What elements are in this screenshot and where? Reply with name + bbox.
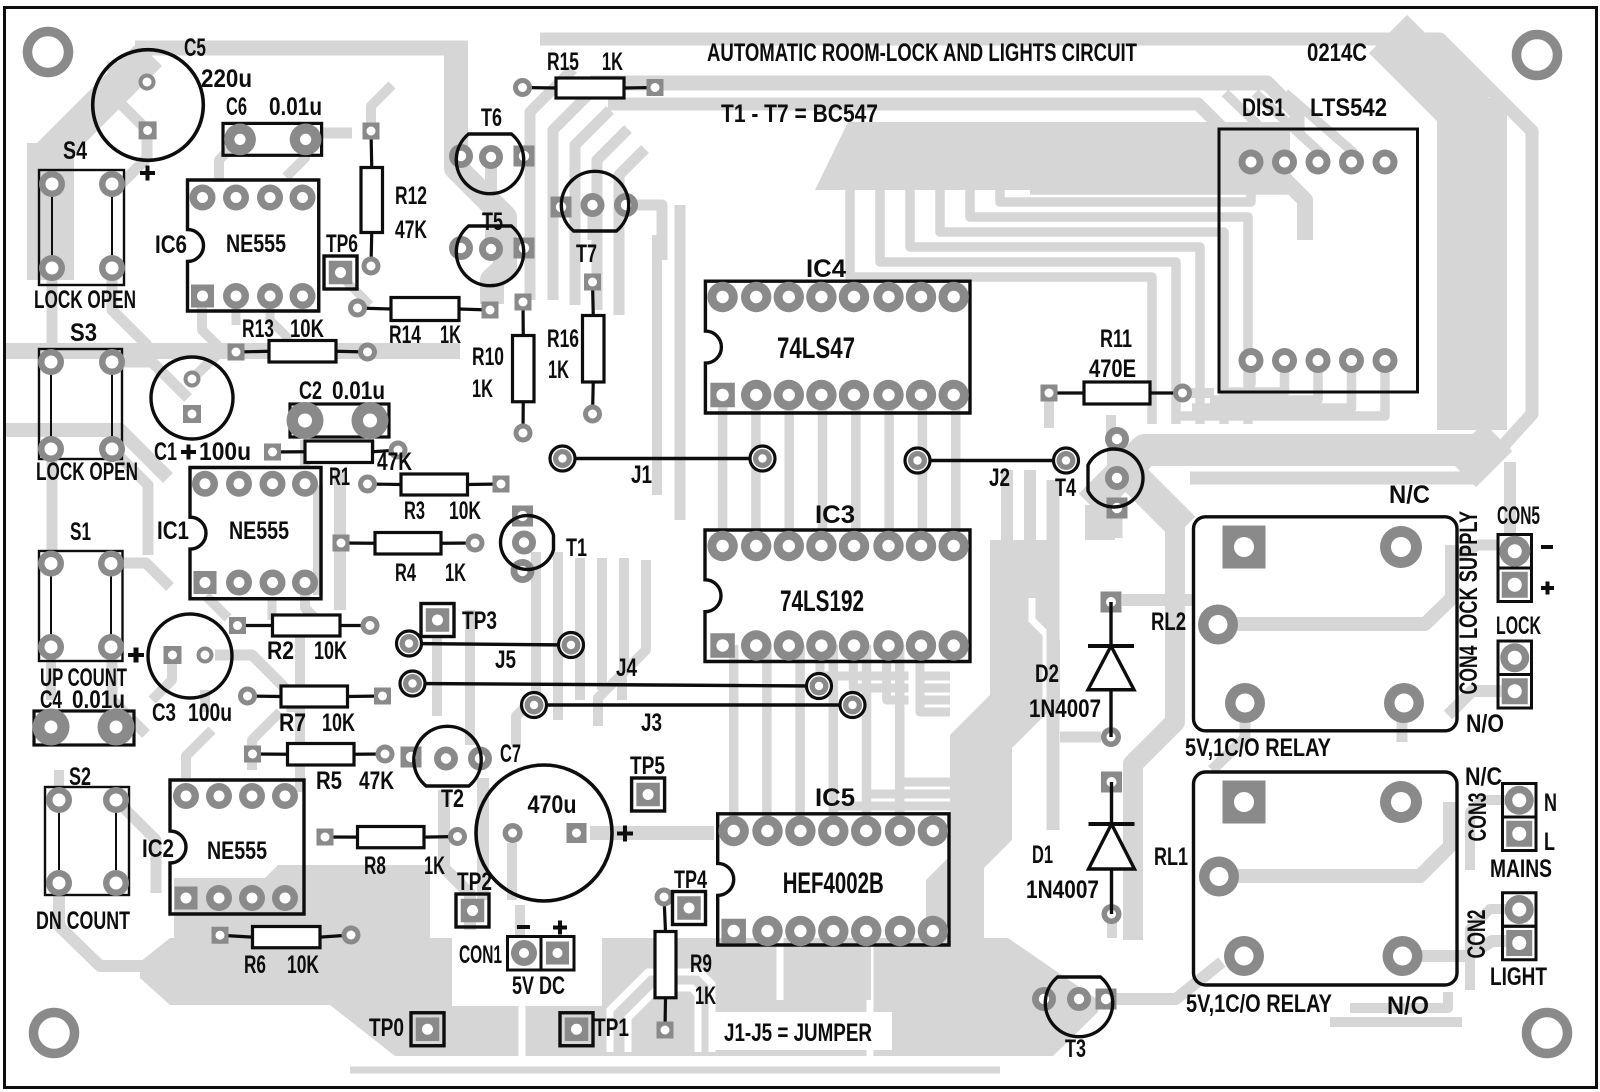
wire	[1448, 691, 1514, 715]
wire	[597, 558, 607, 690]
wire	[1112, 508, 1123, 538]
svg-text:S1: S1	[70, 518, 91, 546]
wire	[796, 931, 805, 1000]
svg-text:N/C: N/C	[1465, 763, 1502, 791]
resistor R4	[333, 533, 485, 588]
resistor R1	[264, 441, 412, 492]
wire	[1452, 545, 1498, 560]
svg-text:LOCK SUPPLY: LOCK SUPPLY	[1455, 511, 1483, 639]
wire	[1313, 150, 1323, 162]
switch S2 dn count	[36, 763, 130, 935]
wire	[6, 430, 168, 478]
svg-text:L: L	[1544, 828, 1555, 856]
resistor R7	[238, 686, 391, 737]
wire	[1192, 360, 1352, 408]
wire	[588, 205, 598, 240]
note J1-J5	[724, 1019, 872, 1047]
relay RL1	[1154, 772, 1457, 1020]
svg-text:IC2: IC2	[142, 835, 174, 863]
jumper J1	[550, 446, 775, 489]
svg-text:C2: C2	[299, 377, 322, 405]
wire	[784, 395, 794, 546]
wire	[186, 730, 212, 778]
wire	[530, 69, 573, 300]
board id 0214C	[1307, 39, 1367, 67]
wire	[286, 139, 305, 177]
test point TP2	[456, 868, 492, 927]
svg-text:10K: 10K	[287, 951, 319, 979]
svg-text:100u: 100u	[199, 438, 251, 466]
svg-text:S2: S2	[69, 763, 91, 791]
svg-text:IC1: IC1	[157, 517, 189, 545]
svg-text:CON1: CON1	[459, 941, 502, 969]
wire	[1122, 466, 1184, 528]
wire	[762, 645, 772, 831]
wire	[829, 645, 839, 831]
wire	[1107, 432, 1121, 510]
svg-text:R5: R5	[316, 767, 342, 795]
wire routing gap	[777, 938, 784, 1000]
svg-text:470E: 470E	[1089, 355, 1136, 383]
IC3 74LS192	[705, 501, 970, 662]
svg-text:CON2: CON2	[1463, 910, 1491, 959]
wire	[608, 104, 1251, 157]
svg-text:UP COUNT: UP COUNT	[40, 664, 127, 692]
capacitor C2	[287, 377, 390, 439]
svg-text:5V,1C/O RELAY: 5V,1C/O RELAY	[1186, 990, 1332, 1018]
svg-text:RL1: RL1	[1154, 843, 1188, 871]
switch S1 up count	[38, 518, 144, 692]
svg-text:MAINS: MAINS	[1490, 855, 1552, 883]
svg-text:TP3: TP3	[462, 607, 497, 635]
wire routing gap	[912, 620, 940, 720]
mounting hole bottom-left	[34, 1013, 75, 1054]
wire	[135, 41, 468, 56]
capacitor C5	[93, 34, 252, 181]
svg-text:R12: R12	[395, 182, 427, 210]
resistor R15	[513, 48, 664, 98]
wire	[1085, 505, 1115, 540]
mounting hole bottom-right	[1527, 1013, 1568, 1054]
wire	[1388, 34, 1470, 116]
wire	[920, 645, 950, 712]
wire	[507, 843, 517, 900]
wire	[456, 44, 505, 304]
wire	[540, 39, 1532, 478]
jumper J2	[905, 448, 1079, 492]
wire	[47, 449, 58, 560]
wire routing gap	[497, 932, 522, 1056]
svg-text:5V DC: 5V DC	[512, 972, 565, 1000]
wire routing gap	[452, 928, 602, 1006]
wire	[1060, 732, 1101, 743]
svg-text:CON4: CON4	[1455, 645, 1483, 694]
wire	[884, 395, 894, 546]
wire routing gap	[712, 1012, 892, 1050]
diode D2 1N4007	[1029, 592, 1134, 748]
wire	[202, 300, 222, 350]
svg-text:R9: R9	[690, 950, 712, 978]
wire	[54, 770, 64, 800]
svg-text:J5: J5	[495, 646, 516, 674]
capacitor C4	[33, 686, 135, 746]
svg-text:N: N	[1544, 789, 1557, 817]
wire	[206, 596, 228, 618]
wire	[1174, 360, 1385, 416]
svg-text:1N4007: 1N4007	[1026, 876, 1099, 904]
svg-text:C1: C1	[154, 438, 177, 466]
wire	[143, 56, 152, 82]
transistor T2	[401, 726, 493, 813]
wire	[1047, 480, 1060, 830]
wire	[1380, 160, 1390, 162]
wire	[622, 560, 646, 700]
wire	[334, 470, 346, 610]
svg-text:J3: J3	[641, 709, 662, 737]
svg-text:10K: 10K	[290, 315, 324, 343]
wire	[1122, 594, 1193, 606]
wire	[232, 300, 241, 325]
svg-text:R14: R14	[389, 321, 421, 349]
capacitor C1	[151, 357, 251, 466]
wire	[598, 558, 624, 726]
capacitor C7	[476, 740, 633, 901]
svg-text:R3: R3	[404, 497, 425, 525]
display DIS1 LTS542	[1219, 94, 1418, 392]
wire	[1044, 393, 1054, 428]
wire	[1001, 470, 1013, 612]
wire	[675, 205, 686, 520]
op-amp-timer IC1 NE555	[157, 468, 321, 599]
wire	[862, 645, 872, 831]
resistor R8	[317, 827, 468, 881]
wire	[371, 85, 392, 131]
svg-text:RL2: RL2	[1151, 608, 1186, 636]
note T1-T7	[721, 100, 878, 128]
wire	[1107, 914, 1117, 938]
svg-text:HEF4002B: HEF4002B	[783, 867, 884, 900]
svg-text:R16: R16	[547, 325, 579, 353]
wire	[1437, 98, 1507, 430]
wire	[219, 139, 240, 182]
wire	[820, 645, 950, 676]
wire	[59, 883, 185, 966]
svg-text:DIS1: DIS1	[1242, 94, 1285, 122]
wire	[1225, 93, 1286, 162]
svg-text:47K: 47K	[377, 448, 412, 476]
test point TP0	[369, 1013, 444, 1046]
resistor R2	[229, 615, 380, 665]
wire	[215, 655, 292, 712]
svg-text:J1: J1	[631, 461, 652, 489]
wire	[1106, 962, 1222, 999]
wire	[345, 280, 370, 305]
svg-text:1K: 1K	[472, 375, 493, 403]
wire	[1397, 703, 1408, 742]
wire	[970, 188, 1248, 424]
wire	[112, 647, 146, 734]
svg-text:S3: S3	[70, 319, 97, 347]
svg-text:C7: C7	[500, 740, 521, 768]
svg-text:LIGHT: LIGHT	[1490, 963, 1547, 991]
transistor T3	[1032, 977, 1117, 1063]
wire	[833, 806, 950, 831]
svg-text:LOCK OPEN: LOCK OPEN	[34, 286, 136, 314]
transistor T4	[1055, 427, 1143, 519]
wire	[795, 645, 805, 831]
resistor R10	[472, 294, 534, 443]
wire	[485, 157, 497, 250]
wire	[300, 440, 310, 468]
IC5 HEF4002B	[718, 784, 949, 946]
switch S3 lock open	[36, 319, 138, 486]
wire	[1218, 545, 1452, 624]
wire	[1228, 360, 1285, 392]
wire	[626, 205, 662, 260]
wire	[575, 558, 585, 700]
jumper J3	[522, 693, 866, 738]
wire	[295, 636, 305, 792]
svg-text:1N4007: 1N4007	[1029, 695, 1101, 723]
wire	[1246, 360, 1251, 384]
wire	[1219, 802, 1450, 876]
IC4 74LS47	[705, 255, 970, 413]
svg-text:0214C: 0214C	[1307, 39, 1367, 67]
wire	[531, 552, 541, 700]
capacitor C3	[128, 614, 232, 727]
svg-text:CON3: CON3	[1464, 793, 1492, 842]
capacitor C6	[223, 93, 322, 155]
svg-text:10K: 10K	[449, 497, 481, 525]
copper pour	[815, 122, 1290, 190]
wire	[313, 485, 323, 595]
switch S4 lock open	[34, 137, 136, 314]
connector CON2 light	[1463, 893, 1547, 991]
wire	[575, 110, 610, 305]
test point TP3	[421, 604, 497, 637]
wire	[516, 552, 536, 745]
svg-text:0.01u: 0.01u	[269, 93, 322, 121]
op-amp-timer IC2 NE555	[142, 780, 304, 914]
wire	[1024, 470, 1036, 598]
title text	[707, 39, 1137, 67]
svg-text:R10: R10	[472, 343, 504, 371]
svg-text:D2: D2	[1035, 660, 1059, 688]
svg-text:10K: 10K	[314, 637, 347, 665]
wire	[477, 778, 489, 900]
wire	[1030, 162, 1286, 190]
svg-text:T3: T3	[1065, 1035, 1086, 1063]
wire	[751, 395, 761, 546]
svg-text:IC4: IC4	[806, 255, 846, 283]
wire	[112, 268, 148, 346]
wire	[1470, 800, 1519, 870]
svg-text:TP0: TP0	[369, 1014, 404, 1042]
svg-text:C5: C5	[184, 34, 206, 62]
wire	[1285, 93, 1353, 162]
svg-text:T6: T6	[481, 104, 502, 132]
svg-text:R11: R11	[1100, 325, 1132, 353]
wire	[1182, 388, 1214, 398]
svg-text:5V,1C/O RELAY: 5V,1C/O RELAY	[1185, 734, 1331, 762]
wire	[112, 362, 188, 398]
svg-text:470u: 470u	[528, 791, 577, 819]
svg-text:T1 - T7 = BC547: T1 - T7 = BC547	[721, 100, 878, 128]
wire	[1462, 437, 1498, 473]
transistor T7	[551, 171, 639, 268]
wire	[895, 645, 905, 831]
wire	[910, 188, 1200, 424]
wire	[1350, 992, 1448, 1008]
svg-text:J4: J4	[616, 654, 637, 682]
svg-text:R6: R6	[244, 951, 266, 979]
wire	[951, 395, 961, 546]
wire	[1504, 462, 1516, 534]
wire	[590, 826, 714, 840]
svg-text:J1-J5 = JUMPER: J1-J5 = JUMPER	[724, 1019, 872, 1047]
svg-text:TP6: TP6	[326, 230, 358, 258]
wire	[305, 582, 330, 633]
wire	[818, 395, 828, 546]
wire	[940, 188, 1224, 424]
svg-text:R1: R1	[329, 463, 350, 491]
wire	[1404, 941, 1519, 956]
wire	[152, 663, 172, 700]
svg-text:AUTOMATIC ROOM-LOCK AND LIGHTS: AUTOMATIC ROOM-LOCK AND LIGHTS CIRCUIT	[707, 39, 1137, 67]
wire	[900, 782, 950, 831]
wire	[1133, 520, 1175, 940]
connector CON4 lock	[1455, 612, 1541, 738]
wire	[252, 712, 280, 770]
wire	[46, 647, 56, 700]
copper pour	[27, 143, 74, 280]
svg-text:R7: R7	[279, 709, 306, 737]
wire	[895, 931, 904, 1000]
wire routing gap	[1032, 540, 1046, 700]
svg-text:DN COUNT: DN COUNT	[36, 907, 130, 935]
wire	[116, 800, 156, 893]
svg-text:T7: T7	[576, 240, 597, 268]
wire	[515, 905, 525, 935]
wire	[1090, 450, 1485, 505]
wire	[350, 1067, 1000, 1074]
svg-text:1K: 1K	[602, 48, 623, 76]
wire	[850, 188, 1152, 424]
resistor R16	[547, 274, 604, 424]
svg-text:1K: 1K	[548, 356, 569, 384]
wire	[553, 552, 563, 720]
wire	[1255, 93, 1320, 162]
svg-text:C3: C3	[152, 699, 176, 727]
wire	[652, 235, 662, 495]
wire	[729, 645, 739, 831]
wire	[1212, 703, 1245, 770]
copper pour	[140, 938, 1098, 1056]
mounting hole top-left	[28, 32, 69, 73]
mounting hole top-right	[1517, 35, 1558, 76]
svg-text:74LS192: 74LS192	[780, 585, 864, 618]
wire	[597, 129, 628, 310]
wire	[918, 395, 928, 546]
op-amp-timer IC6 NE555	[155, 180, 319, 311]
svg-text:220u: 220u	[201, 65, 252, 93]
svg-text:0.01u: 0.01u	[332, 377, 385, 405]
svg-text:47K: 47K	[359, 767, 394, 795]
svg-text:CON5: CON5	[1497, 502, 1540, 530]
wire	[113, 62, 147, 130]
resistor R14	[348, 298, 499, 350]
svg-text:T1: T1	[566, 534, 587, 562]
svg-text:N/O: N/O	[1466, 710, 1504, 738]
wire	[1106, 415, 1116, 439]
svg-text:R4: R4	[395, 559, 416, 587]
svg-text:NE555: NE555	[207, 837, 267, 865]
wire	[120, 130, 147, 185]
svg-text:10K: 10K	[322, 709, 355, 737]
test point TP5	[630, 752, 665, 811]
svg-text:IC5: IC5	[815, 784, 855, 812]
wire	[1330, 1017, 1462, 1027]
svg-text:IC6: IC6	[155, 231, 187, 259]
wire	[465, 610, 475, 745]
relay RL2	[1151, 481, 1457, 762]
svg-text:N/O: N/O	[1387, 992, 1429, 1020]
svg-text:N/C: N/C	[1389, 481, 1430, 509]
wire	[1210, 360, 1318, 400]
resistor R9	[655, 888, 717, 1039]
svg-text:NE555: NE555	[226, 230, 286, 258]
wire	[365, 440, 375, 452]
wire	[928, 931, 937, 1000]
svg-text:1K: 1K	[445, 559, 466, 587]
wire	[270, 300, 290, 340]
wire routing gap	[628, 988, 698, 1052]
svg-text:74LS47: 74LS47	[777, 332, 855, 365]
resistor R3	[358, 474, 510, 525]
wire	[880, 188, 1176, 424]
wire	[867, 794, 951, 831]
svg-text:R2: R2	[267, 637, 294, 665]
resistor R12	[361, 123, 427, 276]
svg-text:J2: J2	[989, 464, 1010, 492]
test point TP4	[673, 866, 708, 925]
svg-text:TP2: TP2	[457, 868, 492, 896]
transistor T5	[449, 208, 535, 286]
wire	[1000, 162, 1251, 202]
wire	[1270, 165, 1305, 240]
copper pour	[174, 878, 430, 940]
svg-text:1K: 1K	[424, 852, 445, 880]
wire	[111, 563, 170, 587]
svg-text:T5: T5	[482, 208, 503, 236]
wire	[444, 790, 470, 930]
wire	[268, 598, 277, 620]
wire	[553, 91, 592, 300]
svg-text:LOCK: LOCK	[1496, 612, 1541, 640]
wire	[887, 645, 950, 700]
wire	[47, 268, 58, 362]
transistor T6	[449, 104, 535, 194]
wire	[200, 690, 210, 712]
resistor R6	[212, 926, 361, 980]
jumper J4	[400, 654, 832, 699]
svg-text:LTS542: LTS542	[1310, 94, 1387, 122]
wire	[590, 83, 1297, 132]
svg-text:100u: 100u	[188, 699, 232, 727]
connector CON5 lock supply	[1455, 502, 1554, 639]
test point TP6	[324, 230, 358, 289]
connector CON3 mains	[1464, 763, 1557, 883]
